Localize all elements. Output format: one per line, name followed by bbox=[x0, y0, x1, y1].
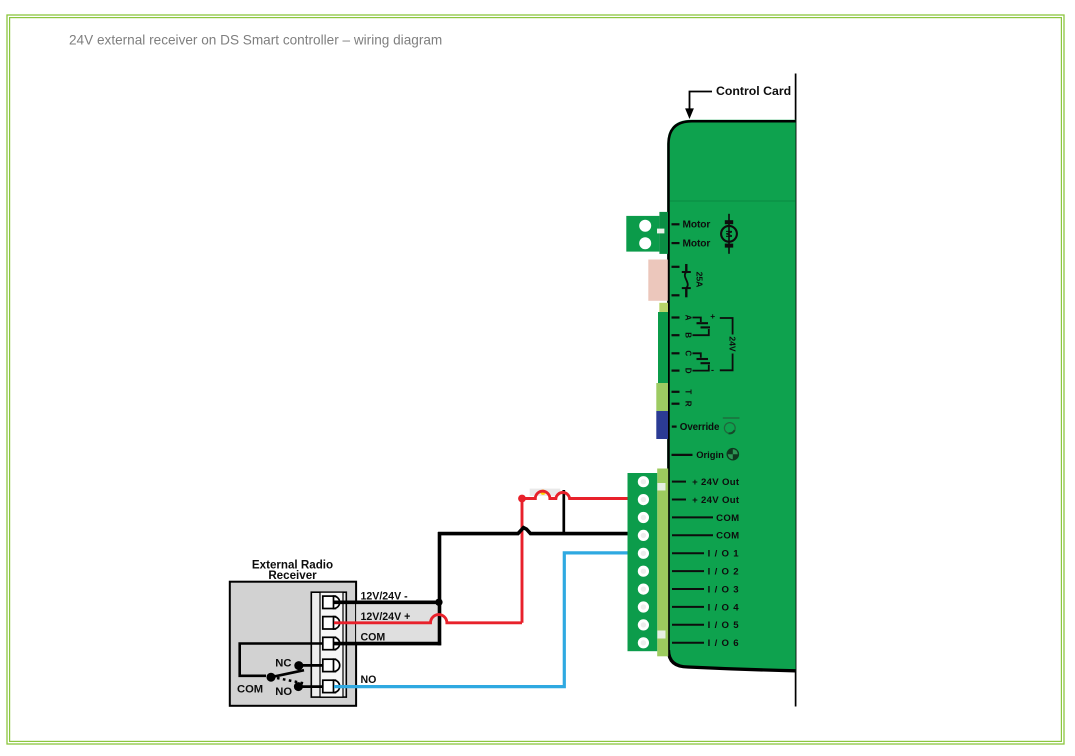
label: Control Card with leader arrow bbox=[685, 84, 791, 119]
pink component block bbox=[648, 260, 668, 301]
svg-text:+ 24V Out: + 24V Out bbox=[692, 477, 740, 488]
svg-text:COM: COM bbox=[361, 631, 386, 643]
svg-text:I / O 1: I / O 1 bbox=[708, 549, 740, 560]
svg-text:+ 24V Out: + 24V Out bbox=[692, 495, 740, 506]
contact symbol A-B bbox=[693, 318, 711, 336]
NO contact node bbox=[294, 682, 303, 691]
svg-text:D: D bbox=[683, 368, 692, 374]
stub black vertical segment bbox=[562, 490, 565, 534]
receiver gray tab bbox=[356, 602, 439, 643]
Origin row bbox=[672, 448, 740, 461]
wire: black vertical riser x=439.5 bbox=[438, 532, 442, 645]
T R ticks and letters bbox=[672, 392, 680, 404]
10-pin terminal block J2 bbox=[628, 473, 658, 651]
Override row bbox=[672, 418, 740, 433]
junction node: black wires bbox=[435, 599, 442, 606]
motor connector block J1 bbox=[626, 212, 668, 254]
switch arm (open, between NC and NO) bbox=[271, 670, 304, 677]
receiver terminal 4 (NC) bbox=[323, 659, 340, 671]
svg-text:Motor: Motor bbox=[683, 239, 711, 250]
svg-text:I / O 6: I / O 6 bbox=[708, 638, 740, 649]
receiver terminal strip housing bbox=[311, 592, 346, 697]
svg-text:COM: COM bbox=[716, 513, 739, 524]
wire: red top run to card +24V Out with two humps bbox=[522, 491, 629, 498]
svg-text:Motor: Motor bbox=[683, 220, 711, 231]
wire: blue NO to card I/O1 bbox=[334, 553, 629, 687]
svg-text:25A: 25A bbox=[695, 272, 705, 288]
svg-text:I / O 5: I / O 5 bbox=[708, 620, 740, 631]
terminal strip light green backing bbox=[657, 469, 668, 657]
switch SW1 common pivot bbox=[267, 673, 276, 682]
wire NC node to terminal 4 bbox=[299, 664, 323, 667]
svg-text:NC: NC bbox=[275, 658, 291, 670]
svg-text:24V: 24V bbox=[728, 336, 738, 352]
yellow dot artifact bbox=[540, 490, 545, 495]
dark green strip bbox=[658, 312, 668, 383]
inputs A B C D ticks and letters bbox=[672, 318, 680, 371]
wire: black 12V/24V- from terminal1 to junction bbox=[334, 600, 440, 604]
receiver terminal 1 (12V/24V -) bbox=[323, 596, 340, 608]
svg-text:T: T bbox=[683, 389, 692, 394]
svg-text:NO: NO bbox=[275, 686, 292, 698]
svg-text:Receiver: Receiver bbox=[268, 569, 317, 582]
wire: red from terminal2 with hop over black riser bbox=[334, 615, 522, 623]
motor symbol M bbox=[721, 214, 737, 254]
receiver terminal 5 (NO) bbox=[323, 680, 340, 692]
receiver enclosure box bbox=[230, 582, 356, 706]
svg-text:NO: NO bbox=[361, 674, 377, 686]
NC contact node bbox=[294, 661, 303, 670]
svg-text:A: A bbox=[683, 315, 692, 321]
wire NO node to terminal 5 bbox=[298, 685, 323, 688]
receiver terminal 3 (COM) bbox=[323, 637, 340, 649]
control card U1 (green PCB body) bbox=[667, 120, 795, 672]
svg-text:M: M bbox=[724, 230, 734, 237]
svg-text:I / O 4: I / O 4 bbox=[708, 602, 740, 613]
svg-text:C: C bbox=[683, 350, 692, 356]
receiver terminal 2 (12V/24V +) bbox=[323, 617, 340, 629]
edited-patch rectangle above red wire bbox=[530, 489, 561, 496]
light green strip bbox=[656, 383, 668, 411]
svg-text:12V/24V +: 12V/24V + bbox=[361, 611, 411, 623]
fuse F1 25A bbox=[672, 264, 691, 297]
silkscreen: Motor rows bbox=[672, 224, 680, 243]
svg-text:24V external receiver on DS Sm: 24V external receiver on DS Smart contro… bbox=[69, 33, 442, 48]
wire: black COM from terminal3 rightward bbox=[334, 642, 441, 646]
svg-text:R: R bbox=[683, 401, 692, 407]
svg-text:+: + bbox=[710, 311, 715, 321]
contact symbol C-D bbox=[693, 353, 711, 370]
svg-text:I / O 2: I / O 2 bbox=[708, 567, 740, 578]
svg-text:I / O 3: I / O 3 bbox=[708, 584, 740, 595]
red junction node bbox=[518, 495, 526, 503]
svg-text:Control Card: Control Card bbox=[716, 84, 791, 98]
terminal row labels bbox=[672, 482, 713, 643]
switch labels NC / NO / COM bbox=[237, 658, 292, 698]
svg-text:Origin: Origin bbox=[696, 449, 724, 460]
internal wire: terminal3 COM to switch common bbox=[240, 644, 323, 676]
wire: black horizontal to card COM with hop over red bbox=[438, 528, 629, 534]
yellow-green sliver bbox=[659, 303, 668, 313]
control card clip line (right edge) bbox=[795, 74, 797, 707]
svg-text:COM: COM bbox=[237, 683, 263, 695]
svg-text:COM: COM bbox=[716, 531, 739, 542]
wire: red vertical riser x=522 bbox=[521, 499, 524, 623]
svg-text:-: - bbox=[711, 365, 714, 375]
dotted throw to NO bbox=[277, 678, 304, 683]
svg-text:B: B bbox=[683, 332, 692, 338]
External Radio Receiver label bbox=[252, 558, 333, 582]
24V bracket bbox=[720, 318, 738, 370]
receiver terminal labels bbox=[361, 591, 411, 686]
blue strip component bbox=[656, 411, 668, 439]
svg-text:Override: Override bbox=[680, 422, 720, 433]
